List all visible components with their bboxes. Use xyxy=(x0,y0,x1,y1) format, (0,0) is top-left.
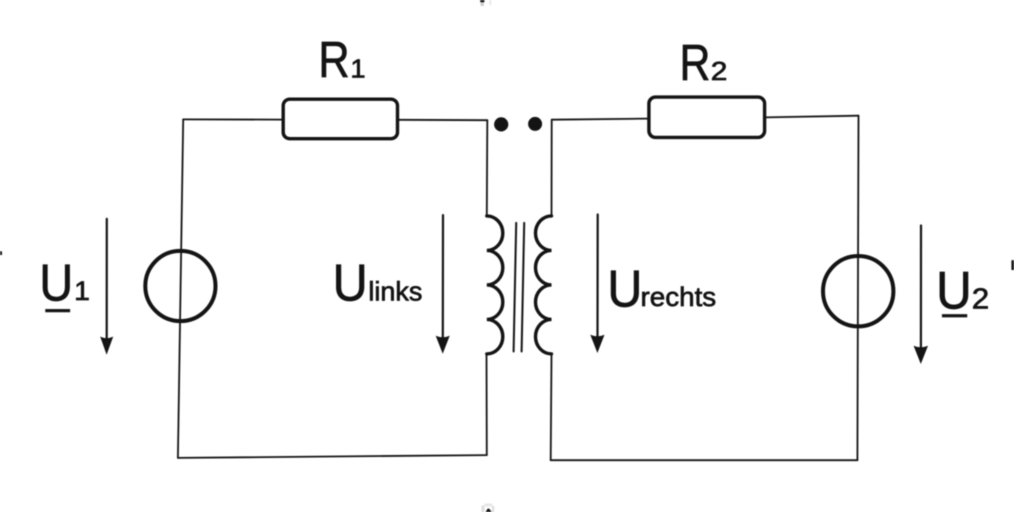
svg-text:U: U xyxy=(607,260,642,318)
svg-text:R: R xyxy=(680,34,711,91)
svg-text:R: R xyxy=(318,32,349,89)
svg-text:U: U xyxy=(936,261,972,320)
svg-text:2: 2 xyxy=(711,57,728,86)
svg-text:links: links xyxy=(368,276,422,306)
svg-text:U: U xyxy=(39,254,73,312)
svg-text:U: U xyxy=(333,253,368,312)
svg-text:2: 2 xyxy=(972,284,989,315)
svg-text:1: 1 xyxy=(74,276,90,306)
svg-text:rechts: rechts xyxy=(641,282,717,313)
svg-text:1: 1 xyxy=(350,54,365,83)
